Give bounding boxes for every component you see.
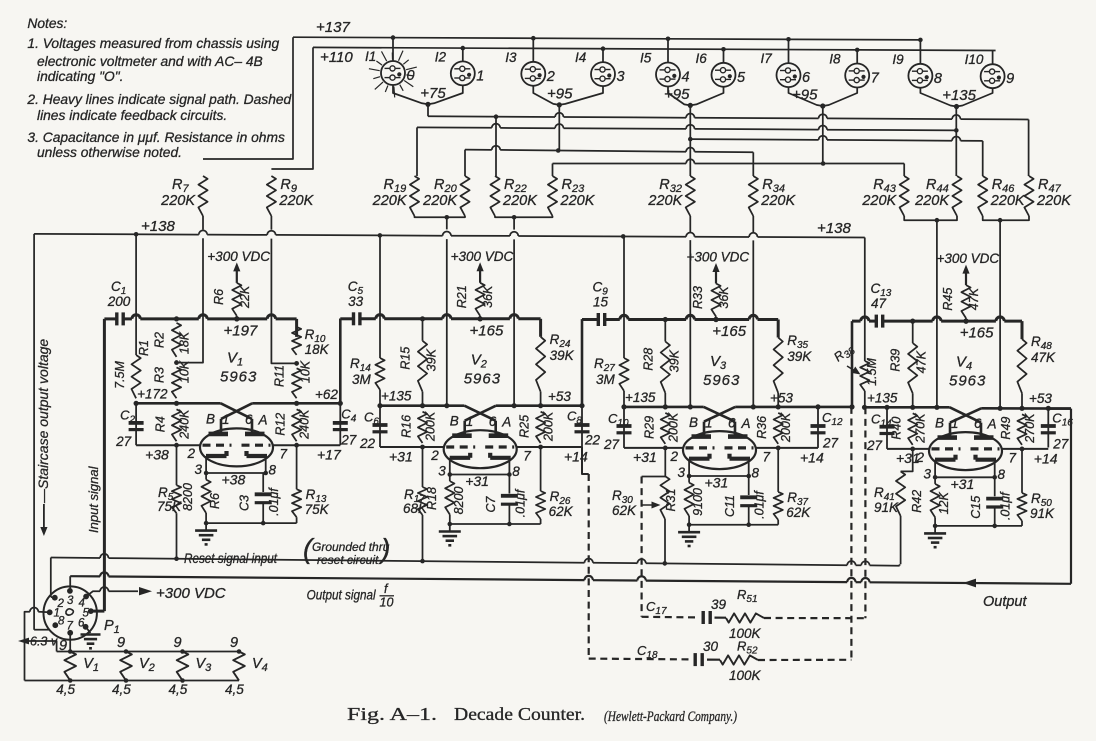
svg-text:91K: 91K	[874, 500, 899, 515]
svg-text:220K: 220K	[647, 193, 683, 209]
node +31 / +14 bias line stage 4	[887, 448, 929, 450]
svg-text:75K: 75K	[305, 502, 330, 517]
svg-text:+38: +38	[222, 472, 246, 488]
wire +138 drop corner to P1	[34, 629, 48, 631]
wire bus3 from node3 +95 to R46	[688, 137, 693, 142]
indicator lamp I10	[981, 64, 1005, 88]
svg-text:220K: 220K	[372, 193, 408, 209]
node +53 right grid line stage 4	[981, 407, 1071, 410]
svg-text:4,5: 4,5	[225, 682, 244, 697]
svg-text:I1: I1	[365, 49, 376, 64]
svg-text:R3: R3	[153, 367, 167, 383]
svg-text:+62: +62	[315, 387, 338, 402]
svg-text:8: 8	[752, 466, 760, 481]
svg-text:I7: I7	[761, 51, 773, 66]
node lamp-pair cathode +135 (I9/I10)	[920, 88, 956, 107]
svg-text:+138: +138	[817, 220, 851, 237]
svg-text:2: 2	[546, 69, 555, 85]
svg-text:A: A	[258, 412, 268, 427]
svg-text:12K: 12K	[937, 492, 951, 515]
svg-text:+31: +31	[705, 475, 729, 491]
svg-text:I6: I6	[696, 51, 708, 66]
svg-text:33: 33	[348, 294, 364, 309]
svg-text:Output: Output	[983, 594, 1027, 610]
capacitor C4 27	[339, 403, 341, 445]
resistor R42 12K cathode	[934, 477, 936, 484]
node +165 plate supply line stage 4	[852, 320, 861, 323]
wire R43/R44 join feed	[904, 216, 957, 220]
svg-text:Decade Counter.: Decade Counter.	[454, 704, 585, 724]
svg-text:200K: 200K	[779, 412, 793, 443]
svg-text:47K: 47K	[1031, 350, 1056, 365]
resistor R52 100K	[720, 655, 758, 664]
svg-text:39K: 39K	[787, 349, 812, 364]
wire +138 to R38	[864, 238, 866, 362]
svg-text:18K: 18K	[178, 331, 192, 354]
svg-text:+300 VDC: +300 VDC	[937, 251, 1000, 266]
resistor R4 240K	[172, 409, 181, 441]
svg-text:unless otherwise noted.: unless otherwise noted.	[37, 145, 182, 160]
node +135 left grid line stage 4	[865, 406, 950, 409]
svg-text:4,5: 4,5	[169, 682, 188, 697]
node +135 left grid line stage 2	[380, 404, 464, 407]
wire R32 lead down	[689, 216, 691, 232]
wire lamp I9 anode to +137	[919, 40, 921, 64]
svg-text:6: 6	[489, 414, 497, 429]
svg-text:+300 VDC: +300 VDC	[156, 585, 226, 602]
tube V1 5963 dual triode	[200, 428, 273, 466]
svg-text:10K: 10K	[178, 360, 192, 383]
resistor R5 75K	[176, 445, 178, 485]
svg-text:+110: +110	[320, 49, 353, 66]
wire dashed feedback drop x=865.4	[864, 407, 866, 618]
svg-text:B: B	[206, 411, 215, 426]
ground stage 2	[450, 523, 541, 525]
svg-text:+53: +53	[1029, 391, 1052, 406]
svg-text:47: 47	[871, 296, 887, 311]
capacitor C5 33	[352, 312, 355, 325]
resistor R6 8200 cathode	[205, 473, 207, 480]
svg-text:B: B	[450, 414, 459, 429]
resistor R50 91K	[1021, 449, 1023, 493]
svg-text:5963: 5963	[220, 368, 257, 385]
svg-text:+165: +165	[470, 322, 504, 339]
svg-text:5963: 5963	[464, 371, 501, 388]
wire lamp I3 anode to +137	[532, 38, 534, 62]
svg-text:1: 1	[705, 415, 713, 430]
tube V3 5963 dual triode	[683, 431, 756, 469]
wire bus1 drop to R22	[495, 117, 497, 176]
capacitor C12 27	[817, 407, 819, 448]
svg-text:+95: +95	[547, 85, 573, 102]
wire R46/R47 join feed	[983, 216, 1029, 220]
svg-text:4: 4	[682, 70, 690, 86]
potentiometer R30 62K	[664, 448, 666, 476]
arrow staircase down	[43, 504, 45, 529]
ground stage 3	[689, 524, 778, 526]
resistor R27 3M grid return	[623, 236, 625, 358]
wire P1 pin4 to +300 VDC	[86, 591, 100, 596]
+138 rail	[34, 233, 199, 236]
svg-text:200: 200	[107, 294, 131, 309]
wire node2 +95 down to bus4	[558, 105, 560, 151]
svg-text:I9: I9	[892, 52, 904, 67]
wire heater top rail	[57, 651, 239, 653]
svg-text:5963: 5963	[949, 372, 986, 389]
svg-text:3: 3	[924, 466, 932, 481]
svg-text:39: 39	[711, 597, 727, 612]
resistor R48 47K	[1017, 339, 1026, 393]
node +172 left grid line stage 1	[136, 402, 221, 405]
svg-text:I4: I4	[575, 50, 586, 65]
svg-text:R1: R1	[137, 340, 151, 356]
svg-text:Notes:: Notes:	[27, 16, 67, 31]
wire bus2 from R19 to node +135	[416, 127, 418, 176]
node +31 / +14 bias line stage 2	[380, 446, 444, 448]
svg-text:reset circuit: reset circuit	[317, 553, 379, 567]
svg-text:62K: 62K	[786, 505, 811, 520]
wire reset bus to P1 pin 2	[51, 596, 55, 599]
resistor R2 18K	[172, 323, 181, 357]
indicator lamp I2	[451, 61, 475, 85]
svg-text:R29: R29	[642, 416, 656, 439]
svg-text:I5: I5	[640, 51, 652, 66]
heater V3	[177, 652, 189, 681]
svg-text:62K: 62K	[549, 504, 574, 519]
svg-text:22: 22	[359, 436, 376, 451]
node lamp-pair cathode +75 (I1/I2)	[393, 85, 428, 104]
indicator lamp I6	[712, 63, 736, 87]
svg-text:R42: R42	[910, 490, 924, 513]
svg-text:27: 27	[603, 437, 620, 452]
svg-text:R25: R25	[518, 415, 532, 438]
capacitor C3 .01&#956;f cathode bypass	[262, 473, 264, 492]
svg-text:+31: +31	[633, 449, 657, 465]
svg-text:4,5: 4,5	[56, 682, 75, 697]
svg-text:+300 VDC: +300 VDC	[451, 249, 514, 264]
svg-text:+138: +138	[141, 218, 175, 235]
svg-text:1: 1	[476, 68, 484, 84]
resistor R25 200K	[536, 412, 545, 443]
resistor R18 8200 cathode	[449, 475, 451, 482]
svg-text:240K: 240K	[178, 409, 192, 440]
svg-text:6: 6	[802, 70, 811, 86]
wire node3 down to R32	[689, 105, 691, 176]
resistor R22 220K	[490, 176, 499, 216]
resistor R31 9100 cathode	[688, 476, 690, 483]
svg-text:+53: +53	[548, 389, 571, 404]
svg-text:6: 6	[728, 415, 736, 430]
wire feedback stage2 +14 jog	[582, 447, 589, 474]
svg-text:electronic voltmeter and with: electronic voltmeter and with AC– 4B	[37, 54, 263, 69]
svg-text:R36: R36	[755, 416, 769, 439]
resistor R1 7.5M	[135, 234, 137, 355]
wire heater bottom rail	[25, 680, 240, 682]
svg-text:+135: +135	[867, 390, 898, 405]
svg-text:Input signal: Input signal	[86, 465, 101, 533]
resistor R10 18K / R11 10K	[292, 327, 301, 355]
svg-text:1: 1	[466, 414, 474, 429]
svg-text:18K: 18K	[305, 342, 330, 357]
svg-text:+17: +17	[317, 447, 342, 463]
svg-text:8200: 8200	[452, 487, 466, 515]
svg-text:1.5M: 1.5M	[865, 358, 879, 386]
wire bus4 from R20 to R34	[464, 150, 466, 176]
indicator lamp I1	[381, 61, 405, 85]
svg-text:+31: +31	[465, 473, 489, 489]
wire lamp I10 anode from +110 end	[992, 51, 994, 65]
svg-text:10K: 10K	[299, 360, 313, 383]
svg-text:1: 1	[222, 412, 230, 427]
node +53 right grid line stage 3	[735, 406, 852, 409]
svg-text:C3: C3	[238, 495, 252, 511]
capacitor C7 .01&#956;f cathode bypass	[508, 475, 510, 494]
svg-text:220K: 220K	[278, 193, 314, 209]
svg-text:R39: R39	[889, 349, 903, 372]
svg-text:R16: R16	[400, 415, 414, 438]
svg-text:+197: +197	[224, 323, 258, 340]
svg-text:27: 27	[866, 438, 883, 453]
svg-text:+14: +14	[1034, 450, 1058, 466]
svg-text:R6: R6	[212, 289, 226, 305]
svg-text:200K: 200K	[424, 411, 438, 442]
wire lamp I1 anode to +137	[392, 38, 394, 61]
wire R9 feed below rail	[271, 239, 295, 364]
svg-text:1. Voltages measured from chas: 1. Voltages measured from chassis using	[27, 36, 279, 51]
resistor R12 240K	[292, 409, 301, 441]
wire node +135 down to R44	[955, 107, 957, 177]
svg-text:+31: +31	[951, 476, 975, 492]
capacitor C2 27	[135, 403, 137, 445]
wire R46/R47 feed down	[999, 220, 1001, 408]
svg-text:C11: C11	[723, 495, 737, 517]
svg-text:+75: +75	[420, 85, 446, 102]
svg-text:27: 27	[822, 435, 839, 450]
svg-text:+38: +38	[145, 447, 169, 463]
resistor R16 200K	[418, 412, 427, 443]
svg-text:—Staircase output voltage: —Staircase output voltage	[35, 339, 51, 504]
svg-text:R15: R15	[399, 347, 413, 370]
wire lamp I6 anode to +110	[723, 49, 725, 63]
svg-text:Reset signal input: Reset signal input	[184, 551, 278, 566]
svg-text:3: 3	[678, 465, 686, 480]
node lamp-pair cathode +95 (I5/I6)	[668, 87, 690, 106]
resistor R20 220K	[460, 176, 469, 216]
node +197 plate supply line stage 1	[123, 317, 132, 320]
resistor R26 62K	[540, 447, 542, 491]
svg-text:240K: 240K	[298, 409, 312, 440]
ground stage 4	[935, 525, 1022, 527]
svg-text:75K: 75K	[157, 499, 182, 514]
svg-text:I8: I8	[829, 52, 841, 67]
svg-text:7.5M: 7.5M	[113, 361, 127, 389]
wire R22/R23 join feed	[495, 216, 553, 217]
svg-text:R49: R49	[999, 417, 1013, 440]
svg-text:2: 2	[187, 446, 196, 461]
svg-text:220K: 220K	[560, 193, 596, 209]
svg-text:9: 9	[59, 638, 67, 654]
resistor R9 220K	[267, 176, 276, 216]
svg-text:+165: +165	[960, 325, 994, 342]
svg-text:9: 9	[230, 635, 238, 651]
resistor R17 68K	[422, 447, 424, 487]
svg-text:9100: 9100	[691, 488, 705, 516]
wire P1 pin7 to heater rail	[69, 633, 71, 652]
wire R43/R44 feed below C13 line	[936, 220, 938, 407]
svg-text:B: B	[689, 415, 698, 430]
svg-text:8: 8	[998, 467, 1006, 482]
svg-text:R18: R18	[425, 487, 439, 510]
svg-text:220K: 220K	[1036, 193, 1072, 209]
resistor R44 220K	[952, 176, 961, 216]
svg-text:200K: 200K	[542, 411, 556, 442]
wire R19/R20 join feed	[415, 216, 466, 217]
wire bus5 from R23 to R43	[552, 164, 554, 177]
svg-text:+300 VDC: +300 VDC	[687, 250, 750, 265]
svg-text:Grounded thru: Grounded thru	[312, 540, 390, 554]
wire dashed feedback drop x=851.4	[850, 407, 852, 660]
resistor R40 270K	[908, 413, 917, 445]
resistor R35 39K	[774, 338, 783, 393]
resistor R36 200K	[774, 413, 783, 444]
resistor R28 39K	[664, 320, 666, 342]
resistor R49 270K	[1017, 414, 1026, 445]
wire input signal line	[104, 317, 116, 320]
node reset signal bus	[50, 558, 52, 598]
svg-text:30: 30	[703, 639, 719, 654]
heater V2	[120, 652, 132, 681]
indicator lamp I3	[521, 62, 545, 86]
svg-text:4,5: 4,5	[112, 682, 131, 697]
wire dashed feedback drop x=588.7	[588, 474, 590, 659]
svg-text:9: 9	[117, 635, 125, 651]
resistor R43 220K	[900, 176, 909, 216]
resistor R19 220K	[410, 176, 419, 216]
resistor R41 91K	[901, 449, 913, 472]
wire R34 feed below rail	[752, 240, 754, 407]
svg-text:C15: C15	[969, 496, 983, 519]
svg-text:39K: 39K	[550, 348, 575, 363]
svg-text:220K: 220K	[502, 193, 538, 209]
svg-text:220K: 220K	[160, 193, 196, 209]
svg-text:indicating "O".: indicating "O".	[37, 69, 124, 84]
capacitor C11 .01&#956;f cathode bypass	[748, 476, 750, 495]
svg-text:7: 7	[763, 449, 771, 464]
svg-text:7: 7	[523, 449, 531, 464]
wire C18 feedback loop	[589, 657, 690, 660]
node output signal f/10 bus	[70, 575, 100, 577]
svg-text:220K: 220K	[861, 193, 897, 209]
svg-text:220K: 220K	[760, 193, 796, 209]
wire coupling riser stage2 to C9	[581, 319, 584, 406]
svg-text:36K: 36K	[481, 285, 495, 308]
svg-text:3M: 3M	[352, 372, 372, 387]
svg-text:B: B	[935, 415, 944, 430]
svg-text:R11: R11	[273, 365, 287, 387]
wire coupling riser stage1 to C5	[339, 319, 342, 404]
indicator lamp I4	[591, 62, 615, 86]
svg-text:9: 9	[1006, 71, 1014, 87]
svg-text:6: 6	[78, 618, 85, 630]
svg-text:.01μf: .01μf	[753, 490, 767, 519]
wire R22/R23 feed below rail	[513, 239, 515, 405]
svg-text:R21: R21	[455, 285, 469, 308]
node +38 / +17 bias line stage 1	[136, 444, 200, 446]
svg-text:R45: R45	[941, 288, 955, 311]
svg-text:7: 7	[871, 71, 880, 87]
capacitor C10 27	[623, 407, 625, 448]
svg-text:+95: +95	[664, 86, 690, 103]
svg-text:8: 8	[512, 464, 520, 479]
capacitor C15 .01&#956;f cathode bypass	[994, 477, 996, 496]
wire bus1 from node +75 to R47	[427, 104, 429, 116]
svg-text:Output signal: Output signal	[307, 588, 377, 603]
wire R34 lead down	[752, 216, 754, 232]
resistor R37 62K	[777, 448, 779, 492]
svg-text:I2: I2	[435, 49, 447, 64]
svg-text:I3: I3	[505, 50, 517, 65]
svg-text:7: 7	[280, 447, 288, 462]
indicator lamp I8	[845, 64, 869, 88]
wire lamp I7 anode to +137	[788, 39, 790, 63]
resistor R15 39K	[422, 319, 424, 341]
resistor R23 220K	[548, 176, 557, 216]
svg-text:R12: R12	[274, 413, 288, 436]
wire C17 feedback loop	[642, 616, 699, 619]
resistor R29 200K	[661, 413, 670, 444]
wire P1 pin1 heater return	[38, 611, 49, 614]
wire lamp I2 anode to +110	[462, 48, 464, 61]
svg-text:R31: R31	[664, 489, 678, 512]
svg-text:Fig. A–1.: Fig. A–1.	[347, 704, 437, 724]
svg-text:220K: 220K	[422, 193, 458, 209]
resistor R13 75K	[296, 445, 298, 489]
svg-text:8: 8	[269, 463, 277, 478]
svg-text:2: 2	[430, 448, 439, 463]
wire node4 +95 down to bus5	[822, 106, 824, 164]
svg-text:6: 6	[245, 412, 253, 427]
svg-text:270K: 270K	[914, 413, 928, 444]
potentiometer R38 1.5M	[860, 361, 869, 391]
svg-text:5963: 5963	[703, 372, 740, 389]
wire R32 feed below rail	[689, 240, 691, 407]
svg-text:62K: 62K	[612, 503, 637, 518]
svg-text:3: 3	[617, 69, 625, 85]
svg-text:220K: 220K	[990, 193, 1026, 209]
wire R7 feed below rail	[178, 238, 204, 362]
wire +137 rail left drop to R7	[203, 37, 293, 159]
svg-text:27: 27	[115, 434, 132, 449]
capacitor C18 30	[694, 653, 697, 666]
svg-text:3: 3	[195, 462, 203, 477]
wire P1 pin6 to ground	[86, 627, 91, 633]
svg-text:8200: 8200	[181, 483, 195, 511]
resistor R34 220K	[749, 176, 758, 216]
svg-text:22: 22	[584, 433, 601, 448]
svg-text:39K: 39K	[667, 349, 681, 372]
node +135 left grid line stage 3	[624, 406, 704, 409]
heater V4	[233, 652, 245, 681]
svg-text:220K: 220K	[914, 193, 950, 209]
svg-text:+135: +135	[625, 390, 656, 405]
wire dashed feedback drop x=641.6	[640, 477, 642, 617]
wire lamp I5 anode to +137	[667, 39, 669, 63]
capacitor C9 15	[597, 313, 600, 326]
node +165 plate supply line stage 2	[340, 317, 353, 320]
wire coupling riser stage3 to C13	[851, 321, 854, 407]
svg-text:R28: R28	[641, 348, 655, 371]
wire R9 lead down	[270, 216, 272, 230]
